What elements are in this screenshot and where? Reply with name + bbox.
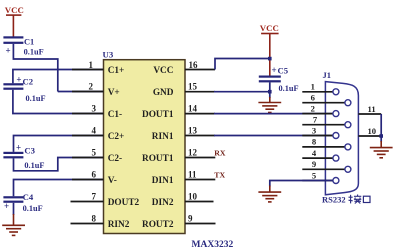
svg-text:C2: C2 — [23, 77, 34, 87]
svg-text:11: 11 — [368, 104, 376, 114]
wire pin4 C2+ to C3 top — [14, 136, 104, 152]
svg-text:V-: V- — [108, 176, 117, 186]
pin 2 stub — [72, 91, 104, 93]
svg-text:RS232: RS232 — [322, 195, 346, 205]
svg-text:DOUT1: DOUT1 — [142, 110, 174, 120]
pin 6 stub — [72, 179, 104, 181]
J1 pin 8 stub — [302, 146, 345, 148]
svg-text:3: 3 — [92, 104, 97, 114]
svg-text:MAX3232: MAX3232 — [192, 240, 234, 250]
svg-text:V+: V+ — [108, 88, 120, 98]
svg-text:J1: J1 — [323, 70, 332, 80]
svg-text:14: 14 — [188, 104, 198, 114]
wire pin6 V- to C4 top — [14, 180, 104, 197]
svg-text:C2-: C2- — [108, 154, 122, 164]
svg-text:VCC: VCC — [260, 23, 279, 33]
left pin names — [108, 66, 140, 230]
capacitor C2 — [3, 75, 45, 104]
IC U3 body — [104, 60, 186, 234]
J1 pin 6 stub — [302, 102, 345, 104]
capacitor C1 — [3, 36, 43, 56]
wire pin14 DOUT1 to J1 pin2 — [214, 113, 333, 115]
svg-text:C1: C1 — [24, 38, 34, 47]
pin 16 stub — [185, 69, 215, 71]
glyph kou (口) — [363, 196, 370, 202]
wire 11/10 to ground — [380, 114, 382, 142]
pin 3 stub — [72, 113, 104, 115]
wire pin1 C1+ to C2 top — [13, 70, 104, 84]
wire C1 bottom to V+ (pin2) — [13, 44, 57, 92]
svg-text:TX: TX — [214, 171, 225, 180]
svg-text:RIN2: RIN2 — [108, 220, 130, 230]
wire C3 bottom to C2- (pin5) — [14, 158, 104, 171]
pin numbers 16-9 (right) — [188, 60, 198, 224]
J1 pin circles — [333, 89, 351, 184]
svg-text:+: + — [272, 65, 277, 75]
node junction at pin 10 wire — [379, 134, 383, 138]
svg-text:8: 8 — [92, 214, 97, 224]
svg-text:6: 6 — [92, 170, 97, 180]
J1 shell pin 11 stub — [358, 113, 381, 115]
node junction pin15/C5 — [268, 90, 272, 94]
svg-text:7: 7 — [92, 192, 97, 202]
svg-text:13: 13 — [188, 126, 198, 136]
pin 5 stub — [72, 157, 104, 159]
svg-text:12: 12 — [188, 148, 198, 158]
J1 pin 4 stub — [302, 157, 333, 159]
svg-text:1: 1 — [311, 82, 315, 92]
pin 11 stub — [185, 179, 215, 181]
svg-text:+: + — [6, 46, 11, 56]
power VCC (middle) — [260, 23, 279, 76]
pin 4 stub — [72, 135, 104, 137]
svg-text:ROUT1: ROUT1 — [142, 154, 174, 164]
J1 pin 3 stub — [302, 135, 333, 137]
pin 9 stub — [185, 223, 216, 225]
svg-text:ROUT2: ROUT2 — [142, 220, 174, 230]
pin 1 stub — [72, 69, 104, 71]
ground (below J1 pin5 wire) — [258, 186, 281, 202]
capacitor C4 — [3, 192, 42, 213]
pin 8 stub — [71, 223, 104, 225]
svg-text:DIN2: DIN2 — [152, 198, 174, 208]
pin 14 stub — [185, 113, 215, 115]
J1 pin 5 stub — [302, 180, 333, 182]
svg-text:16: 16 — [189, 60, 199, 70]
svg-text:2: 2 — [89, 82, 94, 92]
wire C2 bottom to C1- (pin3) — [13, 90, 104, 114]
right pin names — [142, 66, 174, 230]
svg-text:C2+: C2+ — [108, 132, 125, 142]
wire pin 16 to VCC — [215, 59, 270, 70]
J1 shell pin 10 stub — [358, 135, 381, 137]
wire pin 15 GND to C5 — [214, 91, 270, 93]
connector J1 DB9 outline — [325, 82, 358, 195]
svg-text:11: 11 — [188, 170, 197, 180]
power VCC (top-left) — [5, 5, 24, 36]
svg-text:U3: U3 — [103, 50, 114, 60]
wire J1 pin5 to ground — [270, 181, 333, 187]
pin 15 stub — [185, 91, 215, 93]
svg-text:3: 3 — [312, 125, 316, 135]
J1 pin 1 stub — [302, 91, 333, 93]
svg-text:+: + — [16, 75, 21, 85]
svg-text:RX: RX — [214, 149, 226, 158]
ground (below C5) — [258, 97, 281, 113]
label RS232 interface — [322, 195, 370, 205]
capacitor C3 — [3, 143, 44, 171]
svg-text:5: 5 — [312, 170, 316, 180]
J1 pin numbers — [311, 82, 318, 181]
pin 12 stub — [185, 157, 215, 159]
svg-text:RIN1: RIN1 — [152, 132, 174, 142]
svg-text:1: 1 — [89, 60, 94, 70]
ground (right) — [370, 141, 393, 158]
svg-text:15: 15 — [188, 82, 198, 92]
svg-text:+: + — [16, 143, 21, 153]
wire pin2 V+ — [58, 91, 104, 93]
svg-text:+: + — [4, 201, 9, 211]
pin 7 stub — [71, 201, 104, 203]
svg-text:DOUT2: DOUT2 — [108, 198, 140, 208]
node junction pin16/VCC — [268, 57, 272, 61]
svg-text:C5: C5 — [278, 65, 289, 75]
svg-text:C1+: C1+ — [108, 66, 125, 76]
capacitor C5 — [259, 65, 299, 93]
svg-text:0.1uF: 0.1uF — [23, 204, 43, 213]
svg-text:0.1uF: 0.1uF — [26, 94, 46, 103]
svg-text:7: 7 — [313, 115, 318, 125]
wire C5 bottom to ground — [269, 82, 271, 98]
svg-text:VCC: VCC — [153, 66, 173, 76]
svg-text:10: 10 — [188, 192, 198, 202]
svg-text:8: 8 — [312, 137, 317, 147]
svg-text:C3: C3 — [24, 146, 35, 156]
svg-text:VCC: VCC — [5, 5, 24, 15]
svg-text:4: 4 — [92, 126, 97, 136]
J1 pin 2 stub — [302, 113, 333, 115]
pin 10 stub — [185, 201, 214, 203]
svg-text:C4: C4 — [23, 192, 34, 202]
wire pin13 RIN1 to J1 pin3 — [214, 135, 333, 137]
svg-text:DIN1: DIN1 — [152, 176, 174, 186]
pin numbers 1-8 (left) — [89, 60, 97, 224]
ground (below C4) — [2, 214, 25, 235]
svg-text:GND: GND — [153, 88, 174, 98]
J1 pin 9 stub — [302, 168, 345, 170]
J1 pin 7 stub — [302, 124, 345, 126]
svg-text:0.1uF: 0.1uF — [24, 161, 44, 170]
wire C4 bottom to ground — [13, 203, 15, 215]
svg-text:0.1uF: 0.1uF — [279, 84, 299, 93]
svg-text:5: 5 — [92, 148, 97, 158]
svg-text:10: 10 — [368, 126, 377, 136]
pin 13 stub — [185, 135, 215, 137]
svg-text:4: 4 — [312, 148, 317, 158]
svg-text:0.1uF: 0.1uF — [24, 48, 44, 57]
glyph jie (接) — [349, 195, 362, 204]
svg-text:2: 2 — [311, 103, 315, 113]
svg-text:9: 9 — [312, 159, 316, 169]
svg-text:9: 9 — [188, 214, 193, 224]
svg-text:C1-: C1- — [108, 110, 122, 120]
svg-text:6: 6 — [311, 93, 316, 103]
